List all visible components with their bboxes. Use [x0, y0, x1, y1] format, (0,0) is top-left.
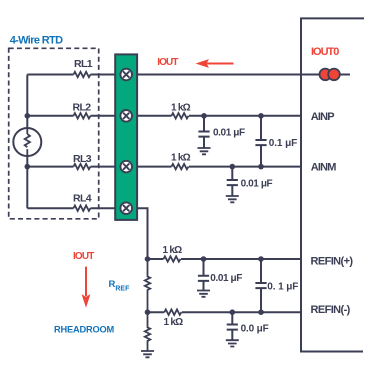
terminal 1 — [120, 69, 132, 81]
arrow IOUT left — [207, 63, 234, 65]
resistor R4 1k REFIN- — [164, 310, 181, 315]
svg-text:0. 1 μF: 0. 1 μF — [267, 281, 298, 292]
svg-text:AINP: AINP — [311, 111, 334, 123]
node RL3 junction — [25, 164, 31, 170]
svg-text:0.01 μF: 0.01 μF — [210, 273, 242, 284]
svg-text:0.01 μF: 0.01 μF — [241, 178, 273, 189]
ground C1 — [198, 148, 211, 154]
capacitor C4 0.01uF — [198, 259, 209, 291]
node AINP C1 junction — [201, 113, 207, 119]
capacitor C2 0.1uF — [255, 116, 266, 167]
capacitor C5 0.1uF — [255, 259, 266, 312]
wire row1 RL1 — [27, 74, 350, 76]
svg-text:1 kΩ: 1 kΩ — [171, 152, 191, 163]
svg-text:RREF: RREF — [109, 279, 131, 293]
capacitor C1 0.01uF — [198, 116, 209, 148]
ground C4 — [197, 291, 210, 297]
ground bottom — [141, 351, 154, 357]
wire row4 RL4 — [27, 208, 147, 259]
resistor RL4 — [74, 206, 91, 211]
resistor RL1 — [74, 72, 91, 77]
resistor RREF vertical — [145, 259, 150, 312]
wire REFIN+ row — [148, 258, 302, 260]
ground C6 — [226, 340, 239, 346]
svg-text:REFIN(-): REFIN(-) — [311, 304, 351, 316]
ground C3 — [226, 196, 239, 202]
svg-text:1 kΩ: 1 kΩ — [164, 317, 184, 328]
svg-text:IOUT: IOUT — [73, 251, 94, 262]
RTD sensor — [13, 128, 41, 156]
svg-text:RL1: RL1 — [74, 58, 93, 70]
node REFIN+ left junction — [145, 256, 151, 262]
resistor R2 1k AINM — [172, 164, 189, 169]
node REFIN- left junction — [145, 309, 151, 315]
svg-text:0.1 μF: 0.1 μF — [269, 138, 297, 149]
node AINM C2 junction — [258, 164, 264, 170]
svg-text:RHEADROOM: RHEADROOM — [54, 325, 114, 336]
svg-text:1 kΩ: 1 kΩ — [163, 245, 183, 256]
svg-text:RL3: RL3 — [73, 153, 92, 165]
svg-text:1 kΩ: 1 kΩ — [171, 103, 191, 114]
capacitor C6 0.0uF — [227, 312, 238, 340]
terminal 3 — [120, 161, 132, 173]
node RL2 junction — [25, 113, 31, 119]
node AINM C3 junction — [230, 164, 236, 170]
terminal 4 — [120, 202, 132, 214]
node REFIN+ C4 junction — [201, 256, 207, 262]
svg-text:RL2: RL2 — [73, 102, 92, 114]
arrow IOUT down — [85, 267, 87, 296]
wire REFIN- row — [148, 311, 302, 313]
resistor R3 1k REFIN+ — [164, 256, 181, 261]
svg-text:AINM: AINM — [311, 162, 336, 174]
node REFIN- C5 junction — [258, 309, 264, 315]
resistor Rheadroom vertical — [145, 312, 150, 351]
resistor RL3 — [74, 164, 91, 169]
wire left vertical bus — [26, 75, 28, 209]
svg-text:REFIN(+): REFIN(+) — [311, 256, 354, 268]
capacitor C3 0.01uF — [227, 167, 238, 196]
wire row2 RL2 — [27, 115, 301, 117]
terminal block — [115, 54, 137, 220]
resistor R1 1k AINP — [172, 113, 189, 118]
svg-text:RL4: RL4 — [73, 192, 92, 204]
RTD enclosure dashed box — [9, 48, 99, 219]
IC outline — [301, 18, 364, 351]
current source symbol IOUT0 — [320, 69, 340, 81]
svg-text:0.01 μF: 0.01 μF — [213, 128, 245, 139]
wire row3 RL3 — [27, 166, 301, 168]
svg-text:4-Wire RTD: 4-Wire RTD — [10, 35, 63, 47]
svg-text:IOUT: IOUT — [157, 57, 178, 68]
svg-text:0.0 μF: 0.0 μF — [241, 323, 269, 334]
node REFIN+ C5 junction — [258, 256, 264, 262]
node AINP C2 junction — [258, 113, 264, 119]
svg-text:IOUT0: IOUT0 — [311, 46, 339, 58]
resistor RL2 — [74, 113, 91, 118]
terminal 2 — [120, 110, 132, 122]
node REFIN- C6 junction — [230, 309, 236, 315]
